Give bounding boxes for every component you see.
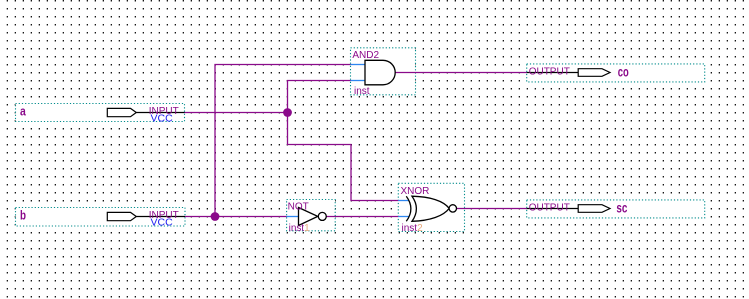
AND2 gate U1 inst [351, 60, 396, 85]
selection box NOT inst1 [287, 200, 336, 231]
wire net b: input b to NOT input [185, 216, 287, 218]
svg-text:sc: sc [616, 200, 627, 216]
output pin co symbol [527, 69, 610, 77]
XNOR gate inst2 [398, 196, 456, 221]
selection box output co [527, 64, 705, 82]
wire net sc: XNOR output to output pin sc [457, 208, 527, 210]
wire net a: input a to junction A [185, 112, 288, 114]
input pin a symbol [107, 108, 184, 116]
svg-text:a: a [20, 104, 26, 119]
svg-text:NOT: NOT [288, 201, 309, 212]
wire net a branch up to AND2 input 2 [288, 81, 351, 113]
wire net a branch down to XNOR input 1 [288, 113, 399, 201]
svg-text:XNOR: XNOR [401, 186, 430, 197]
svg-text:inst: inst [354, 86, 370, 97]
output pin sc symbol [527, 205, 610, 213]
selection box input a [16, 104, 185, 122]
input pin b symbol [107, 212, 185, 220]
svg-text:inst2: inst2 [402, 223, 424, 234]
svg-text:VCC: VCC [151, 112, 174, 124]
wire net co: AND2 output to output pin co [395, 72, 527, 74]
svg-text:co: co [618, 64, 629, 80]
selection box XNOR inst2 [398, 183, 464, 231]
selection box input b [16, 208, 186, 227]
svg-text:VCC: VCC [151, 216, 174, 228]
NOT gate inst1 [287, 208, 327, 226]
svg-text:inst1: inst1 [289, 223, 311, 234]
selection box output sc [527, 200, 705, 218]
junction B [211, 212, 220, 221]
wire NOT output to XNOR input 2 [326, 216, 398, 218]
wire net b branch up to AND2 input 1 [215, 65, 351, 217]
svg-text:OUTPUT: OUTPUT [529, 67, 570, 78]
junction A [283, 108, 292, 117]
svg-text:OUTPUT: OUTPUT [529, 203, 570, 214]
svg-text:AND2: AND2 [352, 50, 379, 61]
selection box AND2 inst [351, 48, 416, 95]
svg-text:b: b [20, 208, 26, 223]
